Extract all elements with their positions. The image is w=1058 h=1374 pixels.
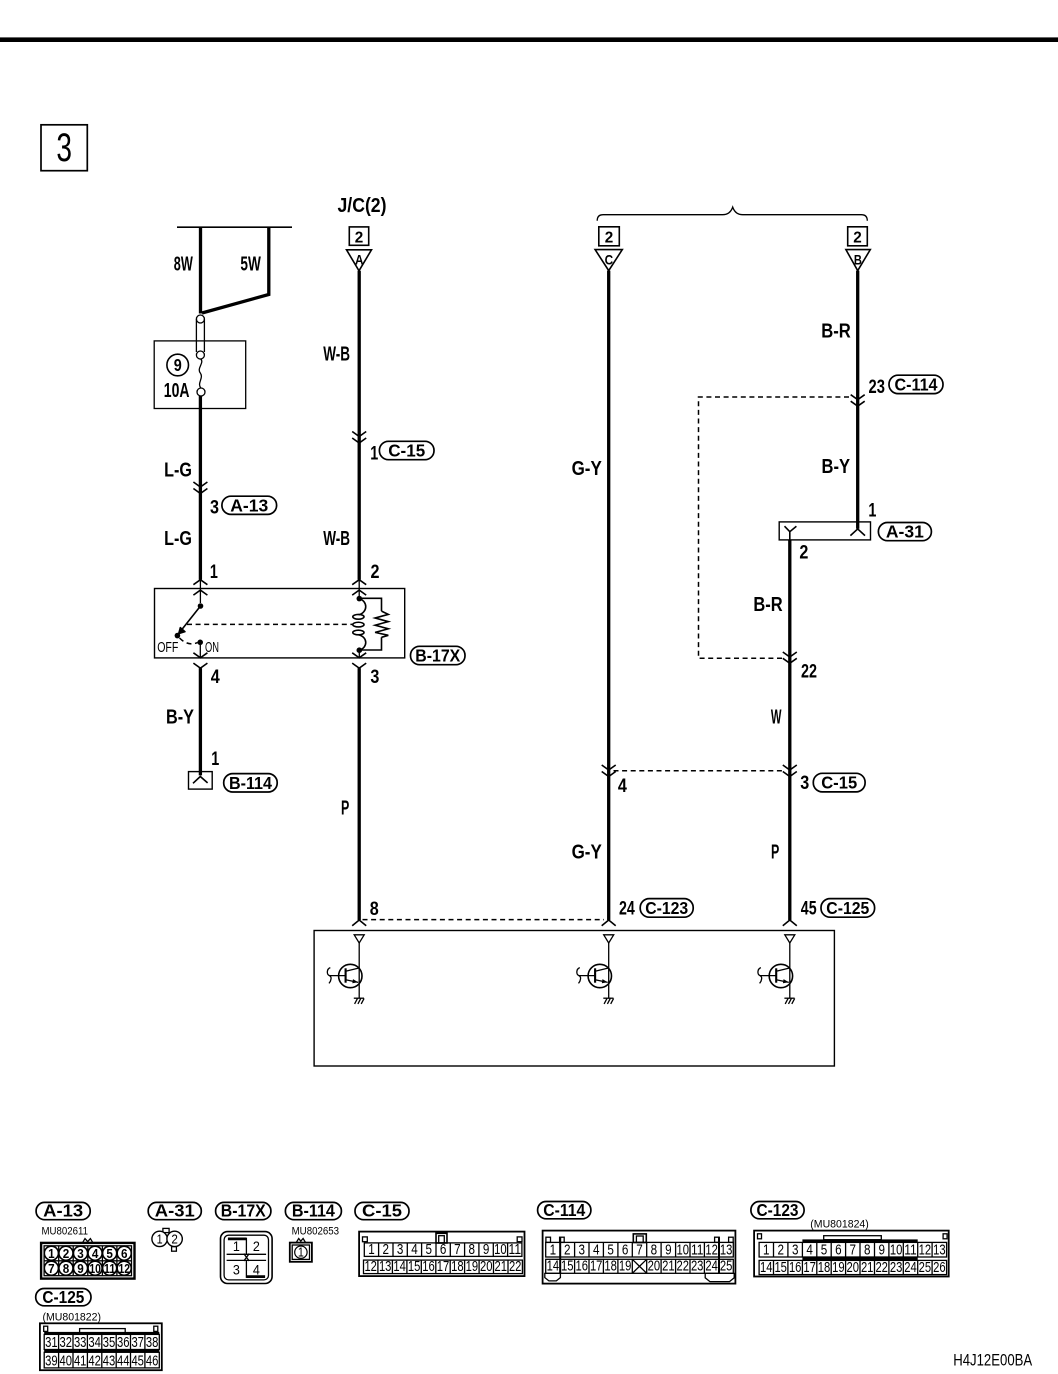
svg-text:G-Y: G-Y [572, 458, 603, 480]
connector label B-17X [216, 1200, 271, 1220]
svg-text:MU802653: MU802653 [292, 1226, 340, 1238]
svg-text:A: A [355, 253, 364, 268]
svg-text:22: 22 [875, 1260, 888, 1276]
fuse box 9 10A [154, 341, 246, 409]
relay coil [359, 599, 366, 615]
switch entry chevrons [193, 580, 207, 595]
svg-text:8: 8 [864, 1242, 871, 1258]
svg-text:33: 33 [74, 1335, 87, 1351]
dashed link pin4 to pin3 [614, 770, 784, 772]
harness brace [597, 207, 867, 221]
C-114 pin row 14-25 [546, 1259, 734, 1273]
svg-text:2: 2 [63, 1246, 70, 1261]
svg-text:2: 2 [605, 229, 614, 246]
svg-text:22: 22 [677, 1259, 690, 1275]
svg-text:B-R: B-R [753, 594, 783, 616]
svg-text:10: 10 [494, 1242, 507, 1258]
svg-text:12: 12 [364, 1259, 377, 1275]
svg-text:42: 42 [88, 1353, 101, 1369]
fusible link [196, 315, 205, 396]
connector pass C-15 pin1 chevrons [352, 432, 366, 444]
svg-text:2: 2 [171, 1232, 178, 1246]
svg-text:3: 3 [370, 667, 379, 688]
svg-text:22: 22 [801, 661, 817, 682]
illumination unit box [314, 931, 834, 1067]
svg-text:11: 11 [691, 1242, 704, 1258]
connector label A-31 [148, 1200, 201, 1220]
connector label B-114 [285, 1200, 341, 1220]
svg-text:19: 19 [466, 1259, 479, 1275]
label box C-125 [821, 898, 875, 918]
svg-text:C-15: C-15 [821, 773, 857, 793]
svg-text:2: 2 [383, 1242, 390, 1258]
svg-text:3: 3 [56, 126, 72, 170]
svg-text:L-G: L-G [164, 528, 192, 550]
branch B marker box 2 [848, 227, 868, 247]
svg-text:6: 6 [622, 1242, 629, 1258]
joint connector A-31 box [779, 522, 870, 540]
C-114 blocked cavity X [632, 1259, 646, 1273]
svg-text:25: 25 [720, 1259, 733, 1275]
transistor Q2 [577, 935, 614, 1004]
svg-text:W-B: W-B [323, 528, 350, 550]
svg-text:36: 36 [117, 1335, 130, 1351]
svg-text:4: 4 [92, 1246, 99, 1261]
C-123 connector face [754, 1231, 949, 1277]
svg-text:8: 8 [370, 899, 379, 920]
svg-text:C-125: C-125 [826, 898, 869, 918]
svg-text:17: 17 [803, 1260, 816, 1276]
C-123 pin row 1-13 [759, 1242, 947, 1257]
A-13 pin 4 [88, 1246, 102, 1260]
svg-text:10: 10 [890, 1242, 903, 1258]
coil stub [358, 580, 360, 599]
A-13 pin 8 [59, 1261, 73, 1275]
A-13 pin 5 [103, 1246, 117, 1260]
svg-text:6: 6 [835, 1242, 842, 1258]
svg-text:24: 24 [705, 1259, 718, 1275]
svg-text:10: 10 [89, 1261, 101, 1276]
J/C branch A marker box 2 [349, 227, 368, 246]
svg-text:9: 9 [665, 1242, 672, 1258]
svg-text:8: 8 [651, 1242, 658, 1258]
svg-text:19: 19 [832, 1260, 845, 1276]
C-125 pin row 31-38 [44, 1334, 159, 1349]
svg-text:43: 43 [103, 1353, 116, 1369]
svg-text:7: 7 [636, 1242, 643, 1258]
OFF contact dot [175, 633, 181, 639]
switch exit chevrons pin4 [193, 653, 207, 668]
ground terminal mark [193, 777, 208, 784]
svg-text:2: 2 [371, 562, 380, 583]
svg-text:6: 6 [440, 1242, 447, 1258]
dashed throw arc [180, 638, 198, 644]
pin 8 entry chevron [352, 920, 366, 926]
A-13 pin 12 [117, 1261, 131, 1275]
svg-text:12: 12 [705, 1242, 718, 1258]
svg-text:3: 3 [792, 1242, 799, 1258]
branch C triangle [595, 250, 622, 271]
svg-text:W-B: W-B [323, 344, 350, 366]
B-114 connector face [290, 1239, 312, 1262]
svg-text:9: 9 [483, 1242, 490, 1258]
svg-text:B-Y: B-Y [822, 456, 851, 478]
svg-text:B-Y: B-Y [166, 707, 195, 729]
connector pass C-15 pin3 chevrons [783, 765, 797, 777]
svg-text:4: 4 [211, 667, 220, 688]
C-125 connector face [40, 1323, 162, 1370]
svg-text:7: 7 [48, 1261, 55, 1276]
J/C branch A triangle [347, 250, 372, 271]
svg-text:C: C [605, 252, 614, 267]
svg-text:35: 35 [103, 1335, 116, 1351]
svg-text:13: 13 [379, 1259, 392, 1275]
svg-text:1: 1 [868, 501, 876, 522]
wire P to illumination [358, 668, 361, 920]
svg-text:32: 32 [60, 1335, 73, 1351]
svg-text:37: 37 [131, 1335, 144, 1351]
svg-text:C-123: C-123 [645, 898, 688, 918]
coil bottom node dot [357, 647, 363, 653]
svg-text:5: 5 [106, 1246, 113, 1261]
label box C-114 [889, 375, 943, 395]
A-13 pin 6 [117, 1246, 131, 1260]
dashed harness link C-114 to C-15 [699, 397, 850, 658]
svg-text:16: 16 [789, 1260, 802, 1276]
connector label C-125 [36, 1287, 91, 1307]
wire B-Y to ground [199, 668, 202, 775]
svg-text:A-31: A-31 [886, 522, 924, 542]
svg-text:7: 7 [850, 1242, 857, 1258]
svg-text:22: 22 [509, 1259, 522, 1275]
top border rule [0, 37, 1058, 42]
battery feed bus wire [177, 226, 292, 228]
svg-text:26: 26 [933, 1260, 946, 1276]
svg-text:38: 38 [146, 1335, 159, 1351]
wire 5W [202, 227, 269, 313]
svg-text:C-114: C-114 [543, 1200, 585, 1220]
connector pass pin22 chevrons [783, 652, 797, 663]
svg-text:C-114: C-114 [895, 375, 938, 395]
A-31 pin1 chevron [850, 529, 865, 536]
svg-text:3: 3 [397, 1242, 404, 1258]
svg-text:15: 15 [561, 1259, 574, 1275]
svg-text:15: 15 [408, 1259, 421, 1275]
label box C-15 [379, 441, 434, 461]
figure number box 3 [41, 125, 87, 171]
svg-text:18: 18 [451, 1259, 464, 1275]
wire L-G fuse to switch [199, 396, 202, 580]
svg-text:15: 15 [774, 1260, 787, 1276]
svg-text:5: 5 [821, 1242, 828, 1258]
wire B-R lower [788, 540, 791, 920]
svg-text:45: 45 [131, 1353, 144, 1369]
svg-text:P: P [341, 797, 349, 819]
svg-text:4: 4 [806, 1242, 813, 1258]
svg-text:20: 20 [648, 1259, 661, 1275]
dashed link pin8 to pin24 [363, 919, 605, 921]
svg-text:4: 4 [593, 1242, 600, 1258]
svg-text:1: 1 [763, 1242, 770, 1258]
svg-text:1: 1 [370, 444, 378, 465]
svg-text:B: B [854, 252, 862, 267]
connector label A-13 [36, 1200, 90, 1220]
svg-text:16: 16 [576, 1259, 589, 1275]
svg-text:3: 3 [579, 1242, 586, 1258]
svg-text:5W: 5W [240, 254, 260, 276]
svg-text:21: 21 [495, 1259, 508, 1275]
A-31 Y junction [785, 526, 797, 540]
transistor Q3 [758, 935, 795, 1004]
svg-text:7: 7 [454, 1242, 461, 1258]
svg-text:9: 9 [77, 1261, 84, 1276]
C-15 connector face [359, 1232, 524, 1277]
connector pass C-15 pin4 chevrons [602, 765, 616, 777]
svg-text:1: 1 [210, 562, 218, 583]
svg-text:31: 31 [45, 1335, 58, 1351]
svg-text:A-13: A-13 [43, 1200, 83, 1220]
svg-text:(MU801822): (MU801822) [43, 1312, 102, 1324]
svg-text:11: 11 [509, 1242, 522, 1258]
svg-text:14: 14 [760, 1260, 773, 1276]
svg-text:13: 13 [933, 1242, 946, 1258]
svg-text:41: 41 [74, 1353, 87, 1369]
svg-text:10A: 10A [164, 380, 190, 402]
svg-text:OFF: OFF [157, 640, 178, 656]
svg-text:8: 8 [63, 1261, 70, 1276]
svg-text:34: 34 [88, 1335, 101, 1351]
wire B-R branch B [856, 271, 859, 529]
resistor zigzag [375, 611, 388, 637]
svg-text:3: 3 [233, 1261, 240, 1277]
A-13 pin 7 [44, 1261, 58, 1275]
svg-text:20: 20 [480, 1259, 493, 1275]
svg-text:1: 1 [211, 749, 219, 770]
svg-text:14: 14 [547, 1259, 560, 1275]
svg-text:A-31: A-31 [155, 1200, 195, 1220]
switch arm [178, 606, 201, 635]
C-123 pin row 14-26 [759, 1260, 947, 1274]
svg-text:9: 9 [878, 1242, 885, 1258]
A-13 connector face [41, 1239, 134, 1279]
svg-text:11: 11 [904, 1242, 917, 1258]
B-17X connector face [221, 1232, 273, 1284]
svg-text:12: 12 [919, 1242, 932, 1258]
svg-text:20: 20 [847, 1260, 860, 1276]
svg-text:3: 3 [800, 773, 809, 794]
svg-text:8: 8 [469, 1242, 476, 1258]
svg-text:17: 17 [590, 1259, 603, 1275]
switch arm arrowhead [179, 628, 185, 634]
C-15 pin row 12-22 [364, 1260, 523, 1274]
svg-text:B-114: B-114 [229, 773, 272, 793]
svg-text:16: 16 [422, 1259, 435, 1275]
coil loops [353, 614, 364, 634]
svg-text:MU802611: MU802611 [42, 1226, 89, 1238]
C-114 connector face [543, 1231, 736, 1284]
label box A-31 [878, 522, 931, 542]
pin 45 entry chevron [783, 920, 797, 926]
switch lower stub [199, 642, 201, 658]
svg-text:3: 3 [210, 498, 219, 519]
branch C marker box 2 [599, 227, 620, 247]
A-13 pin 1 [44, 1246, 58, 1260]
svg-text:40: 40 [60, 1353, 73, 1369]
coil lower stub [358, 650, 360, 658]
svg-text:C-15: C-15 [362, 1200, 402, 1220]
svg-text:46: 46 [146, 1353, 159, 1369]
A-13 pin 2 [59, 1246, 73, 1260]
C-114 pin row 1-13 [546, 1242, 734, 1257]
connector label C-15 [355, 1200, 409, 1220]
lighting switch box B-17X [155, 589, 405, 658]
wire W-B from J/C A [358, 271, 361, 580]
C-125 pin row 39-46 [44, 1352, 159, 1368]
svg-text:8W: 8W [174, 254, 193, 276]
branch B triangle [846, 250, 870, 271]
svg-text:W: W [771, 707, 782, 729]
svg-text:1: 1 [48, 1246, 55, 1261]
svg-text:13: 13 [720, 1242, 733, 1258]
coil top node dot [357, 596, 363, 602]
svg-text:B-17X: B-17X [221, 1200, 266, 1220]
svg-text:4: 4 [411, 1242, 418, 1258]
svg-text:B-17X: B-17X [415, 646, 460, 666]
A-13 pin 9 [73, 1261, 87, 1275]
svg-text:9: 9 [174, 355, 182, 375]
A-13 pin 10 [88, 1261, 102, 1275]
label box C-123 [640, 898, 693, 918]
svg-text:25: 25 [919, 1260, 932, 1276]
svg-text:5: 5 [607, 1242, 614, 1258]
svg-text:24: 24 [904, 1260, 917, 1276]
coil bottom arc [359, 635, 366, 651]
svg-text:1: 1 [298, 1246, 304, 1260]
svg-text:17: 17 [437, 1259, 450, 1275]
A-13 pin 3 [73, 1246, 87, 1260]
svg-text:2: 2 [253, 1238, 260, 1254]
svg-text:2: 2 [853, 229, 862, 246]
svg-text:B-114: B-114 [292, 1200, 335, 1220]
svg-text:21: 21 [662, 1259, 675, 1275]
svg-text:44: 44 [117, 1353, 130, 1369]
switch wire stub [199, 580, 201, 603]
svg-text:2: 2 [799, 543, 808, 564]
svg-text:P: P [771, 841, 779, 863]
svg-text:4: 4 [253, 1261, 260, 1277]
ON contact dot [197, 640, 203, 646]
wire 8W [199, 227, 202, 313]
svg-text:19: 19 [619, 1259, 632, 1275]
svg-text:C-15: C-15 [388, 441, 425, 461]
transistor Q1 tail lamp [327, 935, 364, 1004]
connector label C-114 [538, 1200, 591, 1220]
svg-text:39: 39 [45, 1353, 58, 1369]
mechanical link dashed [187, 623, 352, 625]
svg-text:1: 1 [368, 1242, 375, 1258]
svg-text:6: 6 [121, 1246, 128, 1261]
svg-text:1: 1 [233, 1238, 240, 1254]
svg-text:2: 2 [355, 229, 364, 246]
svg-text:G-Y: G-Y [572, 842, 603, 864]
svg-text:B-R: B-R [821, 321, 851, 343]
resistor branch [359, 598, 381, 650]
svg-text:(MU801824): (MU801824) [810, 1219, 869, 1231]
svg-text:4: 4 [618, 776, 627, 797]
connector pass C-114 pin23 chevrons [851, 395, 865, 407]
svg-text:18: 18 [818, 1260, 831, 1276]
svg-text:L-G: L-G [164, 460, 192, 482]
A-31 connector face [152, 1228, 182, 1251]
label box B-17X [411, 646, 466, 666]
pin 24 entry chevron [602, 920, 616, 926]
svg-text:C-125: C-125 [42, 1287, 84, 1307]
connector pass A-13 chevrons [193, 482, 207, 494]
svg-text:21: 21 [861, 1260, 874, 1276]
svg-text:1: 1 [157, 1232, 163, 1246]
svg-text:23: 23 [691, 1259, 704, 1275]
label box C-15 lower [813, 773, 865, 793]
svg-text:23: 23 [890, 1260, 903, 1276]
svg-text:J/C(2): J/C(2) [338, 195, 387, 217]
svg-text:14: 14 [393, 1259, 406, 1275]
svg-text:18: 18 [604, 1259, 617, 1275]
svg-text:3: 3 [77, 1246, 84, 1261]
label box A-13 [222, 495, 277, 515]
svg-text:11: 11 [104, 1261, 116, 1276]
svg-text:24: 24 [619, 899, 635, 920]
svg-text:2: 2 [777, 1242, 784, 1258]
svg-text:10: 10 [677, 1242, 690, 1258]
A-13 pin 11 [103, 1261, 117, 1275]
coil entry chevrons [352, 580, 366, 595]
svg-text:H4J12E00BA: H4J12E00BA [953, 1350, 1033, 1369]
coil exit chevrons pin3 [352, 653, 366, 668]
svg-text:1: 1 [550, 1242, 557, 1258]
svg-text:A-13: A-13 [230, 495, 268, 515]
svg-text:12: 12 [118, 1261, 130, 1276]
svg-text:C-123: C-123 [757, 1200, 799, 1220]
label box B-114 [224, 773, 278, 793]
ground B-114 box [189, 772, 213, 790]
C-15 pin row 1-11 [364, 1243, 522, 1257]
switch pivot dot [198, 603, 204, 609]
svg-text:23: 23 [869, 377, 885, 398]
svg-text:45: 45 [801, 899, 817, 920]
connector label C-123 [751, 1200, 804, 1220]
svg-text:2: 2 [564, 1242, 571, 1258]
wire G-Y branch C [607, 271, 610, 920]
svg-text:5: 5 [426, 1242, 433, 1258]
